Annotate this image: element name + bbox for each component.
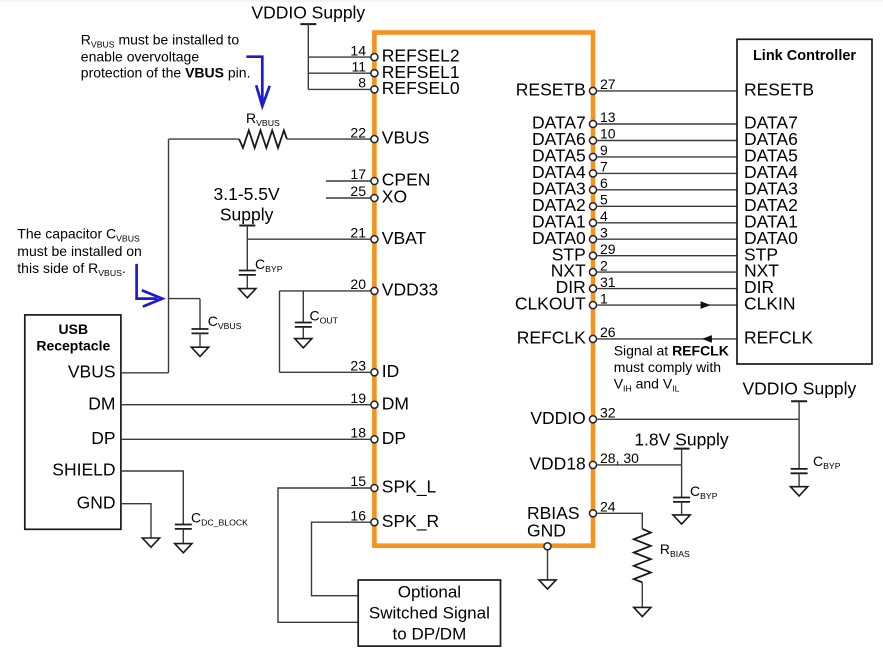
svg-text:ID: ID [382, 361, 400, 381]
svg-text:must be installed on: must be installed on [17, 243, 142, 259]
wire DATA5 to link controller [597, 156, 737, 158]
pin 1 CLKOUT [589, 302, 596, 309]
arrowhead CLKOUT to CLKIN [701, 301, 711, 309]
wire VDD18 pin to supply [597, 464, 681, 466]
svg-text:Optional: Optional [398, 582, 461, 601]
wire SPK_L to optional box [278, 488, 371, 622]
svg-text:Receptacle: Receptacle [36, 337, 110, 353]
svg-text:18: 18 [350, 425, 366, 441]
wire CVBUS top lead [199, 299, 201, 329]
wire DATA3 to link controller [597, 189, 737, 191]
svg-text:11: 11 [351, 58, 366, 74]
USB Receptacle box [25, 315, 121, 529]
ground (CVBUS) [191, 347, 208, 356]
svg-text:SPK_R: SPK_R [382, 511, 439, 532]
wire REFCLK to link controller [597, 338, 737, 340]
pin 3 DATA0 [589, 236, 596, 243]
resistor RVBUS [239, 130, 287, 148]
wire COUT top lead [302, 291, 304, 323]
svg-text:27: 27 [600, 76, 616, 92]
svg-text:17: 17 [350, 166, 366, 182]
pin 17 CPEN [371, 177, 378, 184]
pin 11 REFSEL1 [371, 70, 378, 77]
pin 27 RESETB [589, 87, 596, 94]
svg-text:26: 26 [600, 324, 616, 340]
wire REFSEL2 to supply [308, 56, 371, 58]
wire USB GND to ground [121, 504, 151, 538]
resistor RBIAS [634, 529, 651, 583]
wire VDDIO pin to supply [597, 418, 799, 420]
svg-text:SHIELD: SHIELD [52, 460, 115, 480]
ground (USB GND) [142, 538, 159, 547]
ground (CBYP VDDIO) [791, 487, 808, 496]
wire STP to link controller [597, 255, 737, 257]
svg-text:DM: DM [382, 393, 409, 413]
svg-text:VBAT: VBAT [382, 228, 427, 248]
svg-text:31: 31 [600, 274, 616, 290]
wire CBYP to ground (VDD18) [681, 502, 683, 515]
svg-text:25: 25 [350, 183, 366, 199]
svg-text:3.1-5.5V: 3.1-5.5V [214, 184, 280, 204]
svg-text:1.8V Supply: 1.8V Supply [634, 430, 729, 450]
svg-text:GND: GND [77, 492, 116, 512]
Link Controller box [737, 39, 872, 364]
pin 14 REFSEL2 [371, 54, 378, 61]
wire CDC_BLOCK to ground [182, 529, 184, 544]
pin 2 NXT [589, 269, 596, 276]
svg-text:REFCLK: REFCLK [744, 328, 813, 348]
svg-text:28, 30: 28, 30 [600, 450, 639, 466]
pin GND (bottom) [544, 543, 551, 550]
blue callout arrow 1 (to RVBUS) [246, 57, 269, 106]
svg-text:REFCLK: REFCLK [517, 328, 586, 348]
pin 18 DP [371, 436, 378, 443]
svg-text:13: 13 [600, 109, 616, 125]
wire USB DM to DM pin [121, 404, 371, 406]
wire VBUS net vertical [168, 139, 170, 373]
capacitor CVBUS [192, 329, 209, 333]
pin 22 VBUS [371, 136, 378, 143]
capacitor COUT [295, 323, 312, 327]
svg-text:22: 22 [350, 124, 366, 140]
svg-text:RESETB: RESETB [744, 80, 814, 100]
wire VDDIO supply to CBYP [798, 401, 800, 469]
pin 21 VBAT [371, 236, 378, 243]
svg-text:RESETB: RESETB [516, 80, 586, 100]
svg-text:VDD33: VDD33 [382, 280, 438, 300]
svg-text:23: 23 [350, 358, 366, 374]
svg-text:3: 3 [600, 224, 608, 240]
pin 7 DATA4 [589, 170, 596, 177]
ground (RBIAS) [634, 607, 651, 616]
svg-text:Switched Signal: Switched Signal [369, 603, 490, 622]
svg-text:VDDIO Supply: VDDIO Supply [251, 2, 365, 22]
wire RVBUS to VBUS pin [287, 138, 371, 140]
svg-text:15: 15 [350, 473, 366, 489]
wire DATA4 to link controller [597, 172, 737, 174]
svg-text:Supply: Supply [220, 205, 274, 225]
svg-text:9: 9 [600, 142, 608, 158]
svg-text:VDDIO Supply: VDDIO Supply [743, 379, 857, 399]
ground (CDC_BLOCK) [175, 544, 192, 553]
wire CBYP to ground (VDDIO) [798, 473, 800, 486]
pin 19 DM [371, 401, 378, 408]
svg-text:2: 2 [600, 257, 608, 273]
svg-text:REFSEL0: REFSEL0 [382, 78, 460, 98]
svg-text:8: 8 [358, 75, 366, 91]
pin 10 DATA6 [589, 137, 596, 144]
svg-text:6: 6 [600, 175, 608, 191]
Optional Switched Signal box [358, 580, 500, 646]
capacitor CDC_BLOCK [175, 525, 192, 529]
wire CVBUS bottom lead [199, 333, 201, 347]
svg-text:32: 32 [600, 405, 616, 421]
ground (CBYP VDD18) [673, 515, 690, 524]
pin 15 SPK_L [371, 484, 378, 491]
pin 31 DIR [589, 285, 596, 292]
pin 32 VDDIO [589, 416, 596, 423]
svg-text:protection of the VBUS pin.: protection of the VBUS pin. [81, 65, 251, 81]
svg-text:DM: DM [88, 393, 115, 413]
svg-text:19: 19 [350, 390, 366, 406]
wire COUT loop left side [279, 291, 281, 372]
svg-text:10: 10 [600, 126, 616, 142]
wire stub to CVBUS [169, 298, 201, 300]
wire DATA2 to link controller [597, 205, 737, 207]
ground (COUT) [295, 339, 312, 348]
svg-text:5: 5 [600, 192, 608, 208]
wire REFSEL1 to supply [308, 72, 371, 74]
pin 8 REFSEL0 [371, 86, 378, 93]
pin 13 DATA7 [589, 120, 596, 127]
wire VDD33 to COUT loop top [280, 290, 371, 292]
svg-text:SPK_L: SPK_L [382, 477, 437, 498]
svg-text:DP: DP [382, 428, 406, 448]
svg-text:GND: GND [527, 521, 566, 541]
svg-text:20: 20 [350, 276, 366, 292]
svg-text:7: 7 [600, 159, 608, 175]
wire SPK_R to optional box [312, 522, 371, 596]
wire COUT bottom lead [302, 327, 304, 339]
svg-text:Link Controller: Link Controller [753, 48, 856, 64]
svg-text:Signal at REFCLK: Signal at REFCLK [614, 343, 729, 359]
blue callout arrow 2 (to CVBUS node) [137, 264, 163, 307]
wire RESETB to link controller [597, 90, 737, 92]
wire USB SHIELD to CDC_BLOCK [121, 471, 183, 525]
pin 29 STP [589, 252, 596, 259]
svg-text:VDDIO: VDDIO [530, 408, 585, 428]
IC U1 USB transceiver body [374, 33, 593, 546]
svg-text:CLKOUT: CLKOUT [515, 294, 586, 314]
pin 23 ID [371, 369, 378, 376]
svg-text:24: 24 [600, 499, 616, 515]
pin 20 VDD33 [371, 287, 378, 294]
pin 16 SPK_R [371, 519, 378, 526]
wire CLKOUT to CLKIN [597, 304, 737, 306]
wire REFSEL0 to supply [308, 88, 371, 90]
capacitor CBYP (VBAT) [239, 271, 256, 275]
svg-text:VDD18: VDD18 [529, 454, 585, 474]
svg-text:USB: USB [59, 321, 89, 337]
wire DATA1 to link controller [597, 222, 737, 224]
pin 26 REFCLK [589, 335, 596, 342]
svg-text:to DP/DM: to DP/DM [393, 625, 467, 644]
pin 25 XO [371, 194, 378, 201]
VDDIO supply bar (top) [300, 23, 316, 25]
svg-text:XO: XO [382, 187, 407, 207]
ground (IC GND) [539, 580, 556, 589]
wire DIR to link controller [597, 288, 737, 290]
1.8V supply bar [674, 448, 690, 450]
3.1-5.5V supply bar [239, 225, 255, 227]
wire NXT to link controller [597, 271, 737, 273]
wire supply to CBYP [246, 226, 248, 271]
wire CBYP to ground [246, 275, 248, 289]
wire DATA7 to link controller [597, 123, 737, 125]
svg-text:1: 1 [600, 290, 608, 306]
wire 1.8V supply to CBYP [681, 449, 683, 498]
wire DATA0 to link controller [597, 238, 737, 240]
svg-text:VBUS: VBUS [68, 361, 116, 381]
wire COUT loop bottom to ID pin [280, 371, 371, 373]
VDDIO supply bar (right) [791, 400, 807, 402]
wire RVBUS left lead [169, 138, 240, 140]
svg-text:29: 29 [600, 241, 616, 257]
pin 28, 30 VDD18 [589, 461, 596, 468]
wire USB DP to DP pin [121, 438, 371, 440]
ground (CBYP VBAT) [239, 289, 256, 298]
wire VDDIO supply vertical to REFSEL [307, 24, 309, 89]
svg-text:enable overvoltage: enable overvoltage [81, 49, 200, 65]
pin 6 DATA3 [589, 186, 596, 193]
pin 5 DATA2 [589, 203, 596, 210]
svg-text:must comply with: must comply with [614, 359, 721, 375]
svg-text:16: 16 [350, 507, 366, 523]
wire supply to VBAT pin [247, 238, 370, 240]
wire GND pin to ground [547, 550, 549, 580]
svg-text:14: 14 [350, 42, 366, 58]
wire RBIAS pin to resistor [597, 513, 642, 529]
wire RBIAS to ground [641, 582, 643, 607]
wire CPEN stub [326, 180, 371, 182]
pin 4 DATA1 [589, 219, 596, 226]
pin 24 RBIAS [589, 510, 596, 517]
capacitor CBYP (VDDIO) [791, 469, 808, 473]
svg-text:DP: DP [91, 428, 115, 448]
pin 9 DATA5 [589, 153, 596, 160]
wire DATA6 to link controller [597, 140, 737, 142]
svg-text:VBUS: VBUS [382, 128, 430, 148]
arrowhead REFCLK (into PHY) [702, 335, 712, 343]
svg-text:CLKIN: CLKIN [744, 294, 796, 314]
capacitor CBYP (VDD18) [673, 498, 690, 502]
wire USB VBUS to CVBUS node [121, 372, 169, 374]
svg-text:4: 4 [600, 208, 608, 224]
wire XO stub [326, 197, 371, 199]
svg-text:21: 21 [350, 224, 366, 240]
